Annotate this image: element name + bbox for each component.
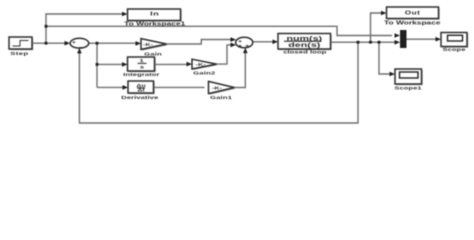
- svg-text:Derivative: Derivative: [121, 95, 159, 100]
- svg-text:-K-: -K-: [143, 43, 153, 47]
- svg-text:Gain2: Gain2: [193, 71, 215, 76]
- svg-text:+: +: [245, 45, 250, 49]
- svg-text:-K-: -K-: [212, 86, 222, 90]
- svg-text:Scope: Scope: [443, 47, 466, 52]
- svg-text:1: 1: [140, 58, 145, 63]
- svg-text:+: +: [238, 44, 243, 48]
- svg-text:s: s: [140, 65, 145, 70]
- svg-text:In: In: [150, 10, 159, 17]
- svg-text:Scope1: Scope1: [394, 86, 422, 91]
- svg-text:-K-: -K-: [196, 63, 206, 67]
- svg-text:+: +: [72, 41, 77, 45]
- svg-text:To Workspace1: To Workspace1: [124, 22, 185, 27]
- svg-text:den(s): den(s): [288, 41, 320, 48]
- svg-text:closed loop: closed loop: [283, 50, 326, 55]
- svg-text:Integrator: Integrator: [123, 72, 160, 77]
- svg-text:To Workspace: To Workspace: [384, 21, 441, 26]
- svg-text:Out: Out: [405, 11, 421, 16]
- svg-text:Δt: Δt: [137, 88, 144, 92]
- svg-text:Gain: Gain: [144, 52, 162, 57]
- svg-text:Step: Step: [10, 51, 28, 56]
- svg-text:Gain1: Gain1: [210, 95, 232, 100]
